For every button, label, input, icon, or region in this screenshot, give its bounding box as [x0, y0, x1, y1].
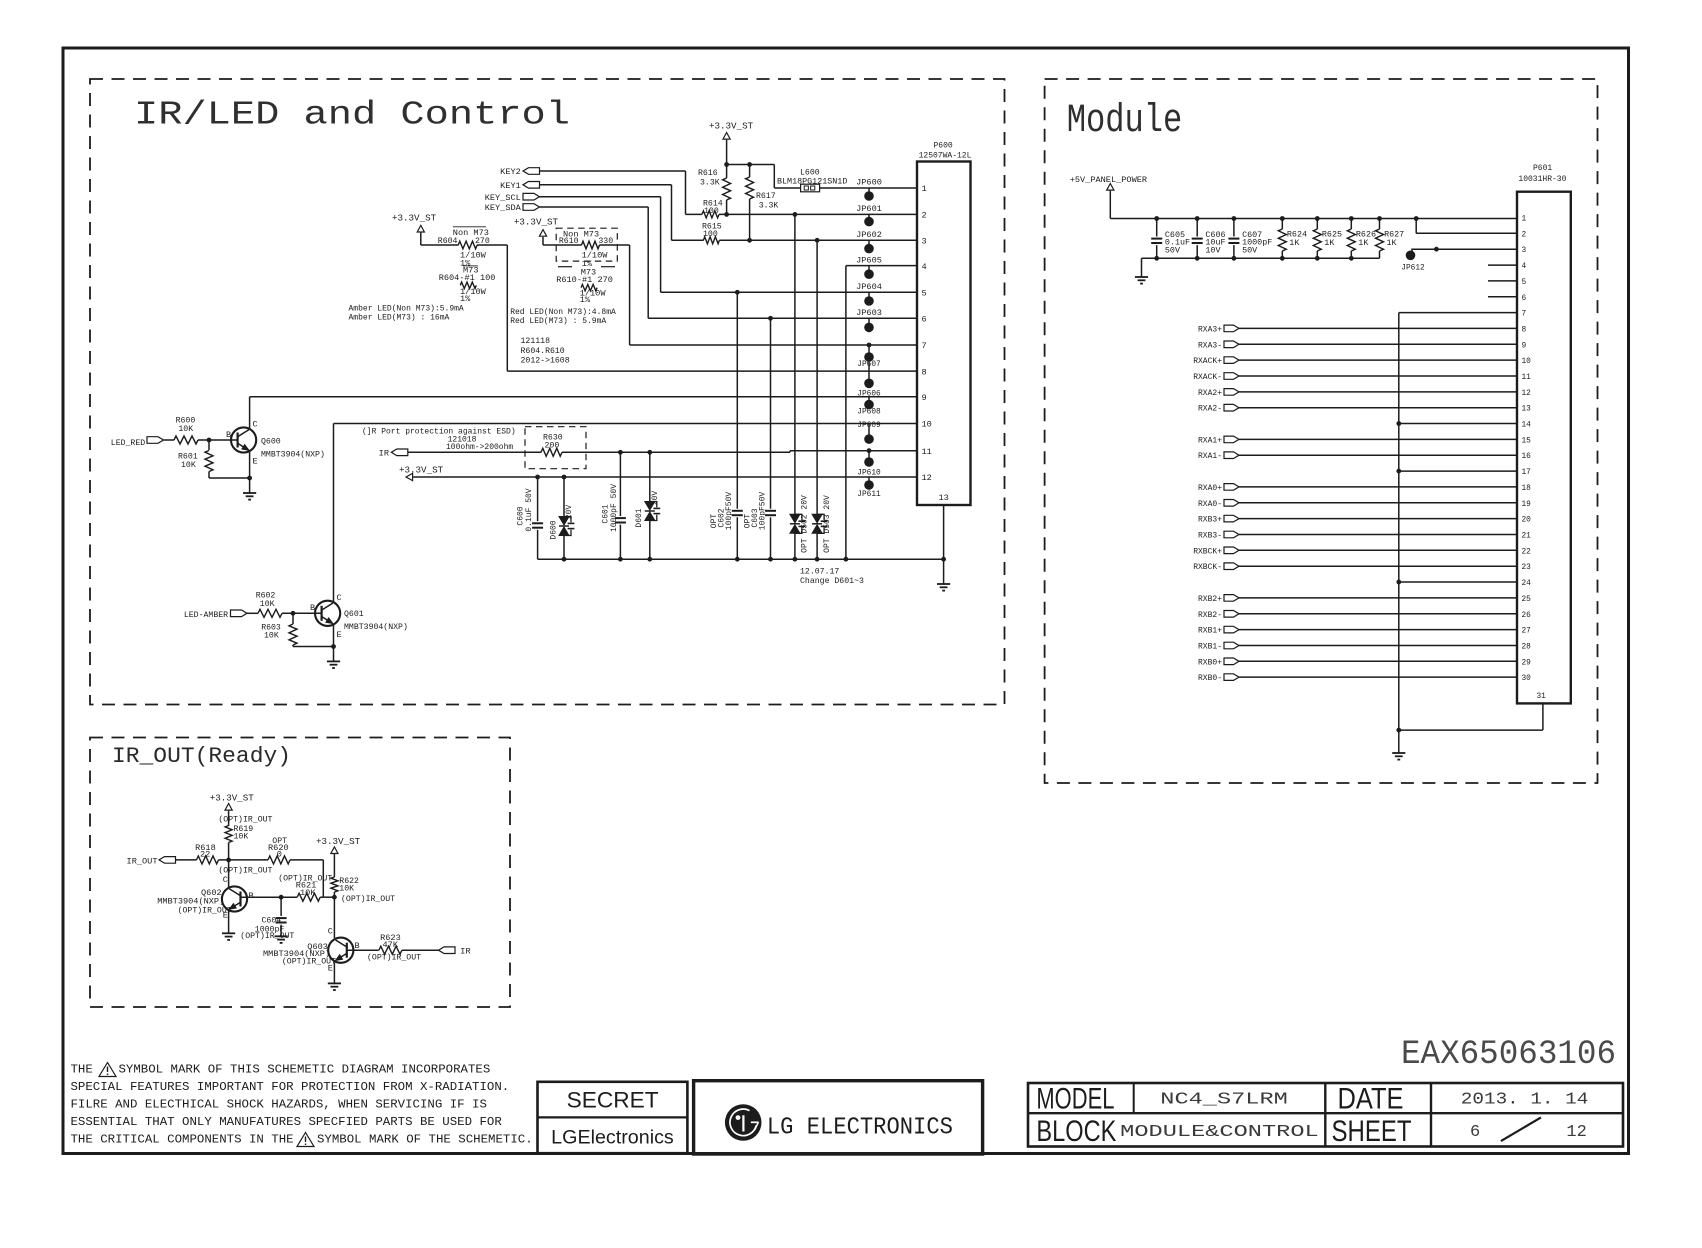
svg-text:MODULE&CONTROL: MODULE&CONTROL — [1120, 1123, 1319, 1142]
svg-text:11: 11 — [1522, 374, 1532, 382]
svg-text:29: 29 — [1522, 659, 1532, 667]
svg-text:(OPT)IR_OUT: (OPT)IR_OUT — [178, 905, 232, 915]
wire Q602 collector — [228, 860, 230, 887]
wire RXA1+ to P601 pin 15 — [1239, 438, 1517, 440]
svg-text:24: 24 — [1522, 580, 1532, 588]
wire RXBCK- to P601 pin 23 — [1239, 565, 1517, 567]
transistor Q601 — [315, 601, 340, 626]
wire RXBCK+ to P601 pin 22 — [1239, 549, 1517, 551]
svg-text:THE: THE — [71, 1063, 93, 1077]
svg-text:OPT D502 20V: OPT D502 20V — [801, 495, 810, 553]
ground Q603 — [328, 982, 341, 984]
wire pin10 net (Q601 collector) — [334, 423, 918, 425]
wire KEY_SDA — [540, 206, 649, 208]
svg-text:10K: 10K — [260, 600, 275, 609]
capacitor C600 — [537, 477, 539, 521]
svg-text:NC4_S7LRM: NC4_S7LRM — [1160, 1090, 1288, 1109]
wire L600 to pin1 — [820, 187, 917, 189]
svg-text:LED_RED: LED_RED — [111, 439, 145, 448]
Module section dashed box — [1045, 79, 1598, 783]
resistor R624 — [1281, 219, 1283, 230]
TVS diode D601 — [649, 452, 651, 502]
svg-text:JP603: JP603 — [856, 308, 882, 318]
svg-text:12: 12 — [922, 473, 932, 483]
svg-text:12: 12 — [1566, 1123, 1586, 1142]
wire RXA0- to P601 pin 19 — [1239, 502, 1517, 504]
capacitor C607 — [1233, 219, 1235, 237]
svg-text:D600: D600 — [550, 520, 559, 539]
svg-text:10K: 10K — [178, 425, 193, 434]
svg-text:SHEET: SHEET — [1332, 1115, 1412, 1148]
IR_OUT(Ready) section dashed box — [90, 738, 510, 1008]
svg-text:R617: R617 — [756, 192, 776, 201]
wire +5V rail to P601 pin1 — [1110, 218, 1517, 220]
svg-text:10031HR-30: 10031HR-30 — [1518, 175, 1566, 184]
svg-text:R604: R604 — [438, 237, 458, 246]
svg-text:R604.R610: R604.R610 — [521, 347, 565, 356]
ground (module decoupling) — [1135, 276, 1148, 278]
svg-text:R610-#1 270: R610-#1 270 — [556, 275, 613, 285]
svg-text:R610: R610 — [559, 237, 579, 246]
stub P601 pin4 — [1488, 264, 1517, 266]
wire pin13 to ground rail — [943, 505, 945, 559]
TVS diode D503 (OPT) — [816, 240, 818, 515]
svg-text:330: 330 — [598, 237, 613, 246]
wire RXB2+ to P601 pin 25 — [1239, 597, 1517, 599]
svg-text:RXB1+: RXB1+ — [1198, 627, 1222, 636]
svg-text:6: 6 — [922, 315, 927, 325]
svg-text:Change D601~3: Change D601~3 — [800, 576, 864, 586]
svg-text:RXBCK-: RXBCK- — [1193, 563, 1222, 572]
svg-text:C: C — [253, 420, 258, 430]
svg-text:21: 21 — [1522, 533, 1532, 541]
svg-text:+3.3V_ST: +3.3V_ST — [399, 464, 444, 475]
svg-text:IR: IR — [379, 449, 389, 459]
svg-text:KEY_SDA: KEY_SDA — [485, 203, 522, 213]
svg-text:Red LED(Non M73):4.8mA: Red LED(Non M73):4.8mA — [510, 308, 616, 317]
svg-text:12: 12 — [1522, 390, 1532, 398]
wire pin9 net (Q600 collector) — [250, 396, 917, 398]
svg-text:100pF50V: 100pF50V — [725, 492, 734, 531]
ground rail — [538, 558, 944, 560]
svg-text:P601: P601 — [1533, 164, 1552, 173]
svg-text:50V: 50V — [1242, 245, 1257, 255]
svg-text:RXA1+: RXA1+ — [1198, 436, 1222, 445]
wire Q603 emitter — [333, 962, 335, 983]
wire P601 pin2 — [1415, 219, 1417, 234]
svg-text:BLM18PG121SN1D: BLM18PG121SN1D — [777, 176, 847, 186]
svg-text:1%: 1% — [580, 295, 591, 305]
wire Q603 collector — [333, 897, 335, 938]
wire +3.3V_ST rail to pin12 — [413, 476, 917, 478]
option dashed box Non M73 (R610) — [556, 228, 617, 261]
wire RXB2- to P601 pin 26 — [1239, 613, 1517, 615]
svg-text:13: 13 — [939, 493, 949, 503]
wire pin3 net — [719, 239, 917, 241]
transistor Q602 — [222, 886, 247, 911]
svg-text:B: B — [310, 603, 315, 613]
wire RXA3+ to P601 pin 8 — [1239, 327, 1517, 329]
wire RXA2+ to P601 pin 12 — [1239, 391, 1517, 393]
svg-text:JP605: JP605 — [856, 255, 882, 265]
svg-text:+3.3V_ST: +3.3V_ST — [392, 212, 437, 223]
wire P601 pin14 stub — [1399, 423, 1517, 425]
ground (P600 pin13) — [937, 583, 950, 585]
wire P601 pin3 / jumper JP612 — [1436, 248, 1517, 250]
svg-text:1000pF 50V: 1000pF 50V — [610, 484, 619, 532]
svg-text:100pF50V: 100pF50V — [759, 492, 768, 531]
svg-text:+5V_PANEL_POWER: +5V_PANEL_POWER — [1070, 175, 1147, 185]
svg-text:RXB0+: RXB0+ — [1198, 658, 1222, 667]
svg-text:(OPT)IR_OUT: (OPT)IR_OUT — [218, 814, 272, 824]
svg-text:13: 13 — [1522, 406, 1532, 414]
svg-text:10V: 10V — [1205, 245, 1220, 255]
svg-text:SYMBOL MARK OF THIS SCHEMETIC: SYMBOL MARK OF THIS SCHEMETIC DIAGRAM IN… — [119, 1063, 491, 1077]
svg-text:6: 6 — [1522, 295, 1527, 303]
svg-text:P600: P600 — [934, 142, 953, 151]
svg-text:JP610: JP610 — [857, 470, 881, 478]
svg-text:+3.3V_ST: +3.3V_ST — [514, 217, 559, 228]
svg-text:RXA0-: RXA0- — [1198, 500, 1222, 509]
svg-text:50V: 50V — [1165, 245, 1180, 255]
svg-text:20V: 20V — [565, 505, 574, 520]
svg-text:1K: 1K — [1387, 238, 1398, 248]
wire RXB1- to P601 pin 28 — [1239, 645, 1517, 647]
warning triangle symbol 1 — [99, 1063, 116, 1077]
svg-text:B: B — [226, 430, 231, 440]
svg-text:20: 20 — [1522, 517, 1532, 525]
jumper JP611 — [868, 477, 870, 485]
svg-text:23: 23 — [1522, 564, 1532, 572]
svg-text:RXA3-: RXA3- — [1198, 341, 1222, 350]
svg-text:RXB2-: RXB2- — [1198, 611, 1222, 620]
svg-text:JP601: JP601 — [856, 204, 882, 214]
svg-text:16: 16 — [1522, 453, 1532, 461]
svg-text:+3.3V_ST: +3.3V_ST — [210, 792, 255, 803]
resistor R625 — [1316, 219, 1318, 230]
capacitor C602 (OPT) — [736, 292, 738, 508]
wire pin4 net to ground rail — [846, 265, 917, 267]
wire RXB3+ to P601 pin 20 — [1239, 518, 1517, 520]
wire RXB0+ to P601 pin 29 — [1239, 660, 1517, 662]
svg-text:25: 25 — [1522, 596, 1532, 604]
svg-text:RXACK-: RXACK- — [1193, 373, 1222, 382]
svg-text:19: 19 — [1522, 501, 1532, 509]
svg-text:7: 7 — [922, 341, 927, 351]
svg-text:3: 3 — [1522, 247, 1527, 255]
svg-text:BLOCK: BLOCK — [1036, 1115, 1116, 1148]
ground C604 — [275, 935, 288, 937]
wire pin5 net — [661, 291, 917, 293]
svg-text:RXB3-: RXB3- — [1198, 532, 1222, 541]
svg-text:121118: 121118 — [521, 337, 551, 346]
svg-text:10: 10 — [1522, 358, 1532, 366]
capacitor C604 (OPT) — [280, 897, 282, 916]
wire 3.3V rail to R616 R617 L600 — [727, 164, 775, 166]
svg-text:SYMBOL MARK OF THE SCHEMETIC.: SYMBOL MARK OF THE SCHEMETIC. — [317, 1133, 533, 1147]
svg-text:270: 270 — [475, 237, 490, 246]
svg-text:E: E — [337, 630, 342, 640]
svg-text:31: 31 — [1537, 693, 1547, 701]
svg-text:RXA2-: RXA2- — [1198, 405, 1222, 414]
wire pin8 net — [507, 370, 917, 372]
svg-text:THE CRITICAL COMPONENTS IN THE: THE CRITICAL COMPONENTS IN THE — [71, 1133, 294, 1147]
stub P601 pin6 — [1488, 296, 1517, 298]
transistor Q603 — [328, 938, 353, 963]
svg-text:IR_OUT(Ready): IR_OUT(Ready) — [112, 743, 291, 769]
wire R610 chain to pin7 — [543, 244, 582, 246]
svg-text:SECRET: SECRET — [567, 1088, 659, 1113]
svg-text:DATE: DATE — [1338, 1083, 1404, 1116]
svg-text:5: 5 — [922, 289, 927, 299]
svg-text:RXBCK+: RXBCK+ — [1193, 547, 1222, 556]
svg-text:(OPT)IR_OUT: (OPT)IR_OUT — [341, 894, 395, 904]
svg-text:MMBT3904(NXP): MMBT3904(NXP) — [261, 450, 325, 460]
wire decoupling ground rail — [1142, 257, 1380, 259]
svg-text:RXB0-: RXB0- — [1198, 674, 1222, 683]
svg-text:2012->1608: 2012->1608 — [521, 357, 570, 366]
svg-text:KEY2: KEY2 — [500, 167, 521, 177]
wire RXB3- to P601 pin 21 — [1239, 534, 1517, 536]
svg-text:RXA0+: RXA0+ — [1198, 484, 1222, 493]
svg-text:11: 11 — [922, 447, 932, 457]
wire KEY_SCL — [540, 196, 661, 198]
svg-text:LG ELECTRONICS: LG ELECTRONICS — [767, 1114, 953, 1141]
svg-text:4: 4 — [922, 262, 927, 272]
svg-text:MMBT3904(NXP): MMBT3904(NXP) — [344, 622, 408, 632]
svg-text:2: 2 — [1522, 231, 1527, 239]
wire ground net to pin31 — [1399, 729, 1543, 731]
capacitor C605 — [1156, 219, 1158, 237]
svg-text:8: 8 — [922, 367, 927, 377]
svg-text:3.3K: 3.3K — [700, 179, 720, 188]
svg-text:Module: Module — [1067, 99, 1183, 144]
svg-text:C: C — [328, 926, 333, 936]
svg-text:15: 15 — [1522, 437, 1532, 445]
svg-text:C604: C604 — [262, 917, 282, 926]
svg-text:C: C — [337, 593, 342, 603]
svg-text:B: B — [355, 941, 360, 951]
capacitor C601 — [619, 452, 621, 516]
wire Q602 base node — [241, 896, 298, 898]
svg-text:JP604: JP604 — [856, 282, 882, 292]
svg-text:RXA1-: RXA1- — [1198, 452, 1222, 461]
svg-text:RXB3+: RXB3+ — [1198, 516, 1222, 525]
svg-text:OPT D503 20V: OPT D503 20V — [823, 495, 832, 553]
svg-text:RXA3+: RXA3+ — [1198, 325, 1222, 334]
net tag IR (input) — [439, 947, 456, 954]
svg-text:10K: 10K — [264, 632, 279, 641]
wire Q601 emitter — [333, 625, 335, 661]
svg-text:1%: 1% — [460, 294, 471, 304]
svg-text:14: 14 — [1522, 422, 1532, 430]
jumper JP607 — [868, 345, 870, 383]
svg-text:Q601: Q601 — [344, 610, 364, 619]
svg-text:(OPT)IR_OUT: (OPT)IR_OUT — [367, 953, 421, 963]
svg-text:100ohm->200ohm: 100ohm->200ohm — [446, 443, 513, 452]
svg-text:B: B — [249, 891, 254, 901]
transistor Q600 — [231, 427, 256, 452]
svg-text:26: 26 — [1522, 612, 1532, 620]
wire RXA2- to P601 pin 13 — [1239, 407, 1517, 409]
svg-text:6: 6 — [1470, 1123, 1480, 1142]
svg-text:28: 28 — [1522, 644, 1532, 652]
svg-text:1K: 1K — [1324, 238, 1335, 248]
svg-text:1K: 1K — [1289, 238, 1300, 248]
svg-text:3.3K: 3.3K — [759, 202, 779, 211]
stub P601 pin5 — [1488, 280, 1517, 282]
wire P601 pin17 stub — [1399, 470, 1517, 472]
wire KEY1 — [540, 184, 672, 186]
wire R623 to IR tag — [402, 949, 439, 951]
ground (module P601) — [1392, 752, 1405, 754]
svg-text:1: 1 — [1522, 216, 1527, 224]
svg-text:SPECIAL FEATURES IMPORTANT FOR: SPECIAL FEATURES IMPORTANT FOR PROTECTIO… — [71, 1080, 510, 1094]
resistor R627 — [1379, 219, 1381, 230]
TVS diode D502 (OPT) — [794, 214, 796, 514]
svg-text:4: 4 — [1522, 263, 1527, 271]
svg-text:LGElectronics: LGElectronics — [551, 1127, 674, 1149]
svg-text:18: 18 — [1522, 485, 1532, 493]
LG logo emblem — [725, 1104, 762, 1141]
svg-text:Amber LED(M73) : 16mA: Amber LED(M73) : 16mA — [349, 313, 450, 322]
TVS diode D600 — [563, 477, 565, 517]
svg-text:2013. 1. 14: 2013. 1. 14 — [1461, 1090, 1589, 1109]
svg-text:FILRE AND ELECTHICAL SHOCK HAZ: FILRE AND ELECTHICAL SHOCK HAZARDS, WHEN… — [71, 1098, 487, 1112]
svg-text:17: 17 — [1522, 469, 1532, 477]
SECRET stamp box — [538, 1082, 688, 1153]
svg-text:JP608: JP608 — [857, 409, 881, 417]
wire RXACK- to P601 pin 11 — [1239, 375, 1517, 377]
wire Q602 emitter — [228, 911, 230, 933]
svg-text:(]R Port protection against ES: (]R Port protection against ESD) — [362, 428, 516, 437]
svg-text:9: 9 — [922, 393, 927, 403]
wire pin2 net — [719, 213, 917, 215]
svg-text:R616: R616 — [698, 169, 718, 178]
svg-text:C: C — [223, 875, 228, 885]
wire RXB1+ to P601 pin 27 — [1239, 629, 1517, 631]
LG ELECTRONICS logo box — [694, 1081, 983, 1154]
svg-text:1: 1 — [922, 184, 927, 194]
svg-text:LED-AMBER: LED-AMBER — [184, 611, 228, 620]
svg-text:EAX65063106: EAX65063106 — [1401, 1036, 1616, 1074]
svg-text:JP612: JP612 — [1401, 265, 1425, 273]
wire RXA0+ to P601 pin 18 — [1239, 486, 1517, 488]
svg-text:KEY_SCL: KEY_SCL — [485, 193, 521, 203]
svg-text:3: 3 — [922, 237, 927, 247]
ground Q601 — [327, 660, 340, 662]
svg-text:8: 8 — [1522, 326, 1527, 334]
svg-text:IR_OUT: IR_OUT — [127, 856, 158, 866]
svg-text:10K: 10K — [339, 885, 354, 894]
wire RXACK+ to P601 pin 10 — [1239, 359, 1517, 361]
svg-text:10: 10 — [922, 420, 932, 430]
wire P601 pin24 stub — [1399, 581, 1517, 583]
IR/LED and Control section dashed box — [90, 79, 1005, 705]
wire Q601 collector — [333, 424, 335, 602]
svg-text:D601: D601 — [635, 508, 644, 527]
wire RXB0- to P601 pin 30 — [1239, 676, 1517, 678]
svg-text:7: 7 — [1522, 311, 1527, 319]
svg-text:Amber LED(Non M73):5.9mA: Amber LED(Non M73):5.9mA — [349, 304, 464, 313]
wire R604 chain to pin8 — [421, 244, 459, 246]
dashed box R630 — [525, 427, 586, 469]
svg-text:+3.3V_ST: +3.3V_ST — [709, 121, 754, 132]
svg-text:RXA2+: RXA2+ — [1198, 389, 1222, 398]
wire R620 to base node — [290, 859, 323, 861]
wire IR net to pin11 — [408, 451, 541, 453]
svg-text:10K: 10K — [234, 833, 249, 842]
svg-text:5: 5 — [1522, 279, 1527, 287]
svg-text:JP602: JP602 — [856, 230, 882, 240]
warning triangle symbol 2 — [297, 1133, 314, 1147]
wire Q600 collector — [249, 397, 251, 429]
svg-text:ESSENTIAL THAT ONLY MANUFATURE: ESSENTIAL THAT ONLY MANUFATURES SPECFIED… — [71, 1115, 503, 1129]
wire RXA1- to P601 pin 16 — [1239, 454, 1517, 456]
wire pin7 net — [630, 344, 917, 346]
title block table — [1028, 1083, 1623, 1147]
resistor R616 — [726, 165, 728, 179]
capacitor C606 — [1196, 219, 1198, 237]
svg-text:IR/LED and Control: IR/LED and Control — [134, 97, 570, 134]
svg-text:20V: 20V — [651, 491, 660, 506]
svg-text:RXB1-: RXB1- — [1198, 643, 1222, 652]
svg-text:RXB2+: RXB2+ — [1198, 595, 1222, 604]
svg-text:12507WA-12L: 12507WA-12L — [919, 152, 972, 161]
capacitor C603 (OPT) — [770, 318, 772, 508]
svg-text:2: 2 — [922, 211, 927, 221]
resistor R622 (OPT) — [331, 877, 338, 892]
svg-text:30: 30 — [1522, 675, 1532, 683]
ground Q600 — [243, 492, 256, 494]
svg-text:10K: 10K — [181, 461, 196, 470]
wire Q600 emitter — [249, 452, 251, 493]
svg-text:E: E — [253, 457, 258, 467]
svg-text:27: 27 — [1522, 628, 1532, 636]
svg-text:Red LED(M73) : 5.9mA: Red LED(M73) : 5.9mA — [510, 317, 606, 326]
svg-text:+3.3V_ST: +3.3V_ST — [316, 836, 361, 847]
svg-text:12.07.17: 12.07.17 — [800, 568, 839, 577]
svg-text:(OPT)IR_OUT: (OPT)IR_OUT — [282, 956, 336, 966]
svg-text:KEY1: KEY1 — [500, 181, 521, 191]
svg-text:JP611: JP611 — [857, 491, 881, 499]
svg-text:22: 22 — [1522, 548, 1532, 556]
jumper JP610 — [868, 451, 870, 462]
wire RXA3- to P601 pin 9 — [1239, 343, 1517, 345]
svg-text:9: 9 — [1522, 342, 1527, 350]
resistor R617 — [749, 165, 751, 178]
svg-text:JP607: JP607 — [857, 361, 881, 369]
svg-text:1K: 1K — [1358, 238, 1369, 248]
svg-text:MODEL: MODEL — [1036, 1083, 1114, 1116]
svg-text:IR: IR — [460, 947, 470, 957]
svg-text:Q600: Q600 — [261, 438, 281, 447]
svg-text:0.1uF 50V: 0.1uF 50V — [525, 488, 534, 531]
ground Q602 — [222, 932, 235, 934]
resistor R626 — [1350, 219, 1352, 230]
svg-text:MMBT3904(NXP): MMBT3904(NXP) — [157, 897, 224, 907]
wire KEY2 — [540, 170, 686, 172]
svg-text:JP600: JP600 — [856, 178, 882, 188]
svg-text:RXACK+: RXACK+ — [1193, 357, 1222, 366]
wire pin6 net — [648, 317, 917, 319]
wire P601 pin7 ground net — [1399, 312, 1517, 314]
